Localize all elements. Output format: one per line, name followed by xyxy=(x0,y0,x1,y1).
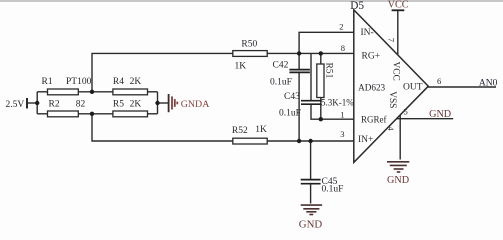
resistor R50 xyxy=(233,51,267,57)
svg-text:GNDA: GNDA xyxy=(181,99,210,110)
svg-text:GND: GND xyxy=(387,175,409,186)
svg-text:R50: R50 xyxy=(241,40,257,50)
resistor R1 xyxy=(48,89,79,95)
svg-text:4: 4 xyxy=(386,127,395,131)
wire R50 to opamp pin8 xyxy=(267,52,354,54)
svg-text:3: 3 xyxy=(340,129,344,139)
svg-text:R1: R1 xyxy=(42,77,53,87)
svg-text:R2: R2 xyxy=(49,100,60,110)
wire C45 bottom lead xyxy=(310,184,312,204)
svg-text:0.1uF: 0.1uF xyxy=(322,185,344,195)
svg-text:AN0: AN0 xyxy=(479,79,498,89)
wire to pin 2 xyxy=(299,32,354,53)
svg-text:1K: 1K xyxy=(235,62,247,72)
resistor R51 xyxy=(317,64,324,98)
svg-text:R51: R51 xyxy=(324,63,334,79)
node RG+ R51 xyxy=(319,51,323,55)
wire R52 to opamp pin3 xyxy=(267,140,354,142)
svg-text:82: 82 xyxy=(76,100,86,110)
ground GNDA symbol xyxy=(169,94,178,112)
svg-text:5.3K-1%: 5.3K-1% xyxy=(321,98,354,108)
resistor R2 xyxy=(48,111,79,117)
svg-text:8: 8 xyxy=(341,43,345,53)
wire bridge top to R50 xyxy=(92,53,233,91)
capacitor C45 xyxy=(301,180,321,184)
ground symbol below C45 xyxy=(301,205,322,214)
wire C43 top lead xyxy=(310,53,312,100)
svg-text:PT100: PT100 xyxy=(66,77,92,87)
wire top rail right xyxy=(148,91,158,93)
node pin1 R51 xyxy=(319,117,323,121)
labels: black component text xyxy=(6,0,365,194)
wire C42 top lead xyxy=(298,53,300,69)
wire C43 bottom lead to pin1 xyxy=(311,104,354,119)
svg-text:GND: GND xyxy=(429,109,451,120)
svg-text:D5: D5 xyxy=(350,0,364,12)
wire C42 bottom lead xyxy=(298,73,300,142)
svg-text:2K: 2K xyxy=(130,99,142,109)
junction dots xyxy=(35,51,323,143)
node bridge top xyxy=(90,90,94,94)
svg-text:OUT: OUT xyxy=(403,83,423,93)
svg-text:2K: 2K xyxy=(130,77,142,87)
wire pin6 output xyxy=(428,86,496,88)
wire top rail mid xyxy=(78,91,113,93)
wire R51 top lead xyxy=(320,53,322,64)
wire bottom rail right xyxy=(148,113,158,115)
op-amp pin names inside triangle xyxy=(358,28,423,145)
wire bridge right vertical xyxy=(157,92,159,114)
capacitor C42 xyxy=(289,70,310,73)
wire bottom rail mid xyxy=(78,113,113,115)
wire bridge bottom to R52 xyxy=(92,114,233,141)
svg-text:VSS: VSS xyxy=(387,91,397,108)
svg-text:VCC: VCC xyxy=(391,62,401,81)
node bridge bottom xyxy=(90,112,94,116)
svg-text:C42: C42 xyxy=(273,61,289,71)
wire bridge left vertical xyxy=(36,92,38,114)
svg-text:R4: R4 xyxy=(113,77,124,87)
wire pin4 stem xyxy=(399,115,401,160)
op-amp U D5 AD623 triangle xyxy=(354,10,429,163)
svg-text:1K: 1K xyxy=(255,125,267,135)
VCC power symbol top xyxy=(392,9,405,11)
resistor R4 xyxy=(113,89,148,95)
svg-text:AD623: AD623 xyxy=(358,82,385,92)
svg-text:5: 5 xyxy=(404,106,408,116)
node IN- C42 xyxy=(297,51,301,55)
pin numbers xyxy=(339,22,441,140)
node GNDA tap xyxy=(155,101,159,105)
wire top rail left xyxy=(37,91,47,93)
svg-text:1: 1 xyxy=(340,110,344,120)
svg-text:IN-: IN- xyxy=(361,28,374,38)
wire R51 bottom lead xyxy=(320,98,322,120)
svg-text:2: 2 xyxy=(339,22,343,32)
svg-text:2.5V: 2.5V xyxy=(6,100,25,110)
svg-text:R5: R5 xyxy=(113,99,124,109)
node IN+ C45 xyxy=(308,139,312,143)
capacitor C43 xyxy=(301,101,321,105)
wire VCC stem pin7 xyxy=(397,10,399,55)
svg-text:0.1uF: 0.1uF xyxy=(279,109,301,119)
wire bottom rail left xyxy=(37,113,47,115)
svg-text:7: 7 xyxy=(387,38,396,42)
ground symbol at pin4 xyxy=(387,162,409,172)
svg-text:VCC: VCC xyxy=(388,0,409,11)
resistor R5 xyxy=(113,111,148,117)
svg-text:RG+: RG+ xyxy=(362,52,381,62)
svg-text:IN+: IN+ xyxy=(358,135,373,145)
node bridge left xyxy=(35,101,39,105)
svg-text:0.1uF: 0.1uF xyxy=(270,78,292,88)
wire pin5 to GND xyxy=(397,118,454,120)
wire 2.5V to bridge left node xyxy=(28,102,38,104)
svg-text:GND: GND xyxy=(299,218,323,230)
resistor R52 xyxy=(233,138,267,144)
svg-text:R52: R52 xyxy=(232,126,248,136)
wire GNDA tap xyxy=(158,102,169,104)
svg-text:C43: C43 xyxy=(284,92,300,102)
svg-text:6: 6 xyxy=(437,76,441,86)
2.5V terminal bar xyxy=(26,98,28,109)
top border line xyxy=(0,0,503,2)
svg-text:RGRef: RGRef xyxy=(361,114,387,124)
node IN+ C42 xyxy=(297,139,301,143)
wire C45 top lead xyxy=(310,141,312,180)
